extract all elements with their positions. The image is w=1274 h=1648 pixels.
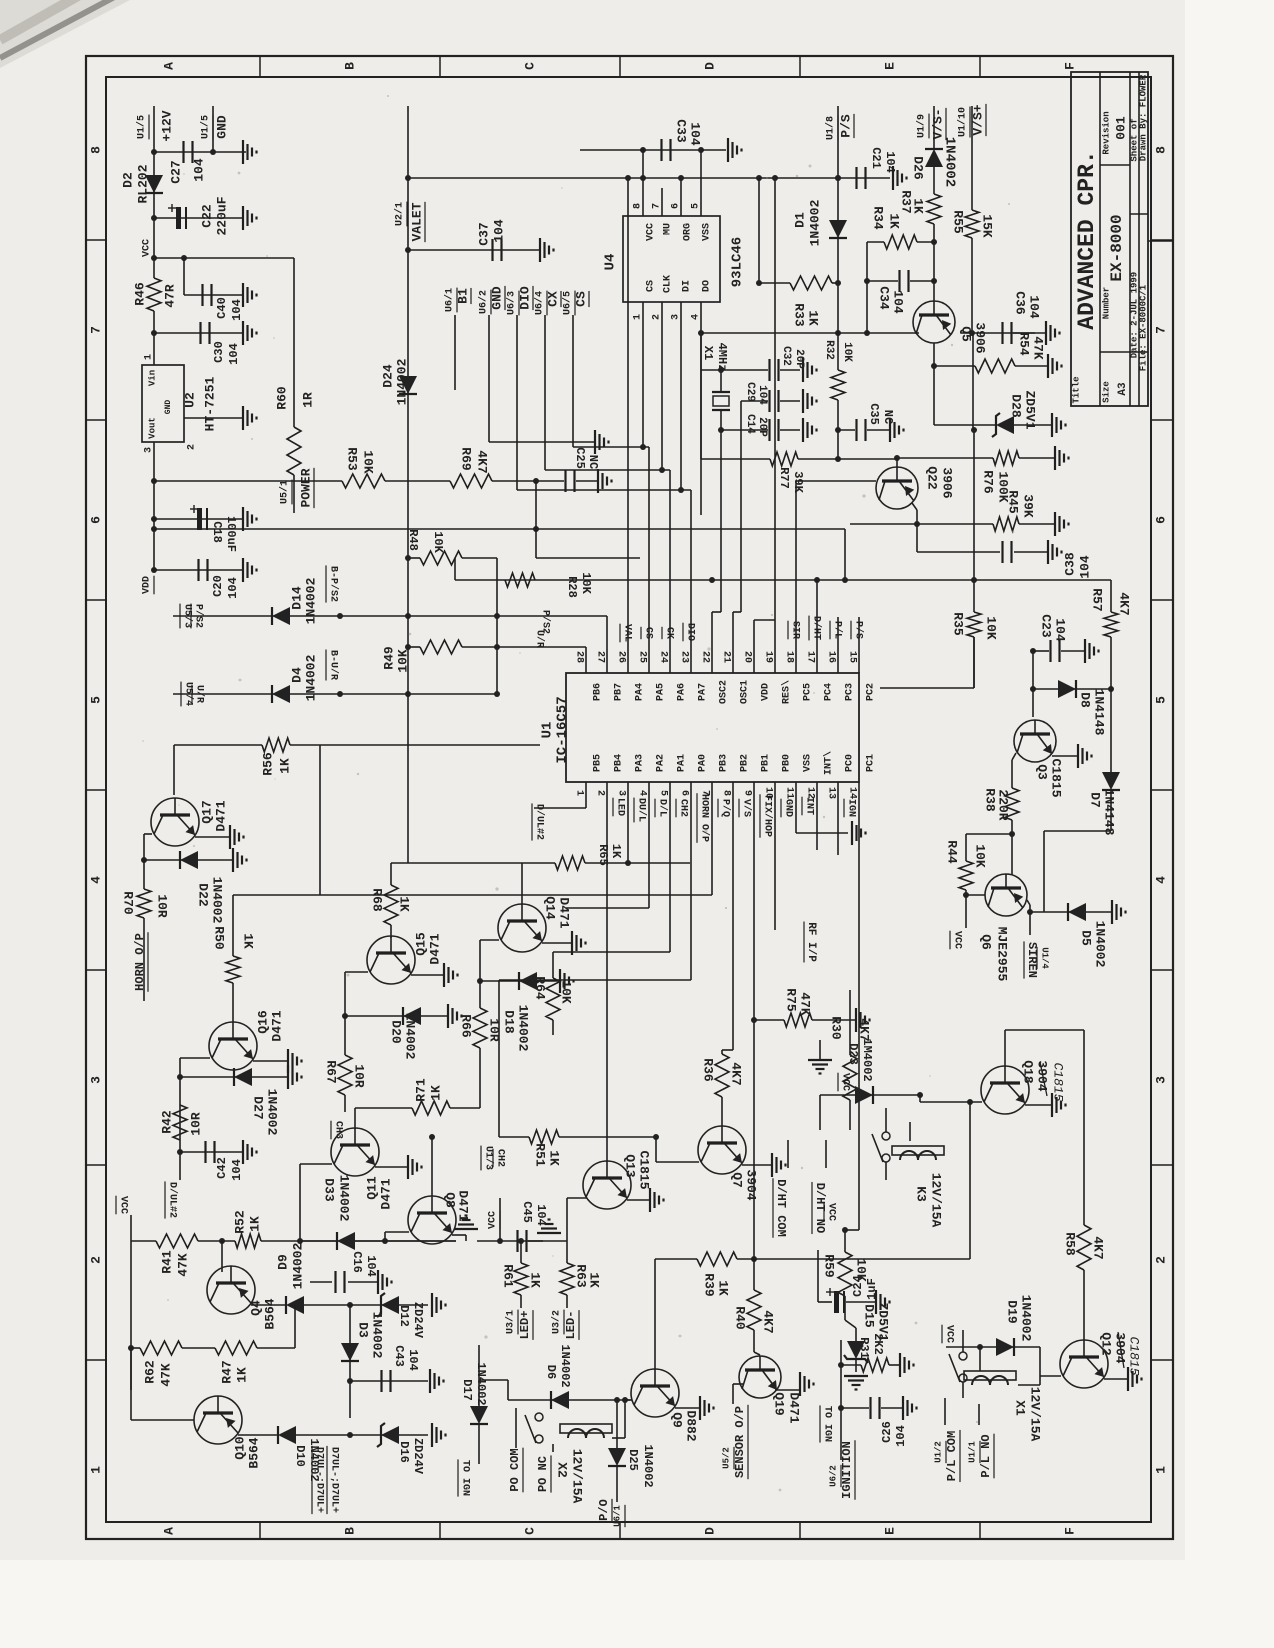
- svg-text:C34: C34: [877, 286, 892, 310]
- svg-text:VCC: VCC: [646, 223, 657, 241]
- svg-text:PB5: PB5: [593, 754, 604, 772]
- svg-text:U1/1: U1/1: [967, 1441, 977, 1463]
- svg-text:D27: D27: [251, 1096, 266, 1119]
- svg-text:VCC: VCC: [488, 1211, 499, 1229]
- diode D8 1N4148: [1058, 680, 1076, 698]
- grid ticks bottom: [259, 1522, 261, 1539]
- wire R57 column: [1110, 580, 1112, 612]
- U1 pin8 wire: [732, 782, 734, 1050]
- svg-text:4MHz: 4MHz: [715, 343, 729, 372]
- svg-text:5: 5: [691, 203, 702, 209]
- ground sym U1 gnd: [851, 821, 853, 845]
- wire Q18 emitter ground: [1025, 1104, 1052, 1106]
- svg-text:Q6: Q6: [979, 934, 994, 950]
- capacitor C36 104: [1001, 322, 1003, 344]
- wire C30 branch: [154, 332, 243, 334]
- svg-text:RF I/P: RF I/P: [805, 922, 817, 962]
- resistor R77 39K row 459: [701, 458, 770, 460]
- svg-text:D23: D23: [846, 1043, 860, 1065]
- svg-text:R61: R61: [501, 1264, 516, 1288]
- svg-text:12V/15A: 12V/15A: [929, 1173, 944, 1228]
- svg-text:SIR: SIR: [789, 621, 800, 639]
- svg-text:1: 1: [88, 1466, 103, 1474]
- svg-text:PA4: PA4: [635, 683, 646, 701]
- node V/S+ 333: [969, 330, 975, 336]
- svg-text:D16: D16: [397, 1441, 411, 1463]
- diode D4 1N4002: [272, 685, 290, 703]
- wire Q14 base: [480, 939, 499, 941]
- svg-text:C24: C24: [851, 1275, 865, 1297]
- svg-text:U6/5: U6/5: [562, 291, 574, 315]
- svg-text:1K: 1K: [428, 1085, 443, 1101]
- svg-text:R42: R42: [159, 1110, 174, 1134]
- wire C20 branch: [154, 569, 243, 571]
- svg-text:F: F: [1062, 1527, 1077, 1535]
- svg-text:104: 104: [534, 1204, 548, 1226]
- svg-text:1K: 1K: [887, 213, 902, 229]
- svg-text:D10: D10: [293, 1445, 307, 1467]
- svg-text:1N4002: 1N4002: [1019, 1295, 1034, 1342]
- wire Q8 emitter to VCC row: [452, 1234, 466, 1236]
- svg-text:1N4148: 1N4148: [1092, 689, 1107, 736]
- svg-text:D471: D471: [269, 1010, 284, 1041]
- svg-text:R38: R38: [983, 788, 998, 812]
- resistor R56 1K: [262, 738, 290, 752]
- svg-text:U1/2: U1/2: [933, 1441, 943, 1463]
- svg-text:PA7: PA7: [698, 683, 709, 701]
- wire R65 row 863: [408, 862, 555, 864]
- svg-text:22: 22: [699, 651, 710, 663]
- svg-text:C: C: [522, 62, 537, 70]
- wire col497: [496, 558, 498, 694]
- ground sym at C30: [242, 321, 244, 345]
- wire R60 branch: [154, 257, 294, 259]
- svg-text:28: 28: [573, 651, 584, 663]
- svg-text:D471: D471: [213, 800, 228, 831]
- svg-text:D3: D3: [356, 1322, 371, 1338]
- diode D25 1N4002: [608, 1448, 626, 1466]
- node C20: [151, 567, 157, 573]
- svg-text:6: 6: [1153, 516, 1168, 524]
- svg-text:Q9: Q9: [670, 1412, 685, 1428]
- node Q9 base: [622, 1397, 628, 1403]
- svg-text:220uF: 220uF: [214, 196, 229, 235]
- U1 pin4 wire: [648, 782, 650, 908]
- svg-text:10K: 10K: [361, 450, 376, 474]
- node R62 row: [128, 1345, 134, 1351]
- svg-text:Q4: Q4: [248, 1300, 263, 1316]
- node Q22 collector: [894, 455, 900, 461]
- wire R71 row: [355, 1107, 412, 1109]
- svg-text:7: 7: [1153, 326, 1168, 334]
- svg-text:HORN O/P: HORN O/P: [698, 794, 710, 842]
- svg-text:A3: A3: [1117, 382, 1129, 396]
- resistor R32 10K on column 838: [837, 283, 839, 370]
- wire row529 right corner: [844, 529, 846, 580]
- wire VCC to Q10 base column: [130, 1241, 132, 1390]
- diode D33 1N4002 on VCC rail: [337, 1232, 355, 1250]
- svg-text:C45: C45: [520, 1201, 534, 1223]
- svg-text:R51: R51: [533, 1143, 548, 1167]
- svg-text:C18: C18: [210, 521, 224, 543]
- transistor Q12 3904: [1060, 1340, 1108, 1388]
- svg-text:OSC1: OSC1: [740, 680, 751, 704]
- svg-text:R68: R68: [370, 888, 385, 912]
- svg-text:5: 5: [657, 790, 668, 796]
- wire col536 to row558: [535, 481, 537, 558]
- wire V/S- column through R37: [933, 106, 935, 150]
- node D16 row: [347, 1432, 353, 1438]
- wire CX row: [545, 469, 670, 471]
- svg-text:5: 5: [88, 696, 103, 704]
- wire X2 to D6 row: [612, 1437, 625, 1439]
- svg-text:TO IGN: TO IGN: [821, 1406, 832, 1442]
- wire Q7 emitter ground: [742, 1164, 772, 1166]
- svg-text:1N4002: 1N4002: [403, 1013, 418, 1060]
- diode D27 1N4002: [234, 1068, 252, 1086]
- resistor R50 1K: [226, 956, 240, 983]
- wire C24 column: [817, 1250, 819, 1302]
- resistor R51 1K: [529, 1130, 559, 1144]
- wire Q18 base: [920, 1101, 982, 1103]
- wire Q17 emitter to ground: [195, 836, 230, 838]
- svg-text:1N4002: 1N4002: [290, 1242, 305, 1289]
- wire Q11 base: [300, 1163, 332, 1165]
- svg-text:C25: C25: [573, 447, 587, 469]
- ground sym C35 row: [889, 418, 891, 442]
- terminal VCC mid: [499, 1198, 501, 1241]
- svg-text:R41: R41: [159, 1250, 174, 1274]
- title block frame: [1071, 72, 1148, 406]
- svg-text:R77: R77: [777, 467, 791, 489]
- ground sym C21: [892, 166, 894, 190]
- ground sym D12: [431, 1293, 433, 1317]
- svg-text:PA2: PA2: [656, 754, 667, 772]
- svg-text:1N4002: 1N4002: [303, 654, 318, 701]
- diode D5 1N4002: [1068, 903, 1086, 921]
- wire C38 row: [917, 551, 1000, 553]
- node VALET-178: [405, 175, 411, 181]
- svg-text:PC5: PC5: [803, 683, 814, 701]
- svg-text:U6/1: U6/1: [612, 1505, 622, 1527]
- wire R50 column: [232, 895, 234, 956]
- switch K3 contacts: [882, 1154, 890, 1162]
- U1 pin10 wire: [774, 782, 776, 930]
- svg-text:D25: D25: [626, 1449, 640, 1471]
- ground sym at C18: [242, 507, 244, 531]
- svg-text:U1/9: U1/9: [916, 114, 928, 138]
- svg-text:D17: D17: [460, 1379, 474, 1401]
- svg-text:47K: 47K: [1031, 336, 1046, 360]
- svg-text:U1/10: U1/10: [957, 107, 969, 137]
- diode D23 1N4002: [855, 1086, 873, 1104]
- transistor Q13 C1815: [583, 1161, 631, 1209]
- svg-text:39K: 39K: [1021, 494, 1036, 518]
- svg-text:4: 4: [691, 314, 702, 320]
- svg-text:R64: R64: [533, 976, 548, 1000]
- ground sym U2 pin2: [242, 406, 244, 430]
- svg-text:D6: D6: [544, 1365, 558, 1379]
- svg-text:U1/8: U1/8: [825, 116, 837, 140]
- svg-text:10R: 10R: [352, 1064, 367, 1088]
- wire Q22 emitter: [912, 503, 917, 510]
- U1 pin28 wire: [585, 647, 587, 673]
- svg-text:12V/15A: 12V/15A: [570, 1449, 585, 1504]
- transistor Q15 D471: [367, 936, 415, 984]
- svg-text:B: B: [342, 62, 357, 70]
- svg-text:PC3: PC3: [845, 683, 856, 701]
- node SIREN: [1027, 909, 1033, 915]
- paper speckle noise: [449, 302, 452, 305]
- svg-text:R35: R35: [951, 612, 966, 636]
- svg-text:U5/2: U5/2: [721, 1447, 731, 1469]
- svg-text:R47: R47: [219, 1360, 234, 1383]
- U1 pin3 wire LED: [627, 782, 629, 863]
- scan artifact corner smudge: [0, 0, 130, 68]
- wire R33 row: [759, 282, 790, 284]
- wire Q15 emitter ground: [411, 974, 444, 976]
- svg-text:D/L: D/L: [656, 799, 668, 817]
- U1 pin7 wire HORN: [711, 782, 713, 895]
- wire VALET vertical bus: [407, 106, 409, 863]
- svg-text:U1/5: U1/5: [200, 115, 212, 139]
- wire bus 178 corner down: [758, 178, 760, 283]
- svg-text:D471: D471: [557, 897, 572, 928]
- diode D26 1N4002: [925, 149, 943, 167]
- svg-text:1K: 1K: [716, 1280, 731, 1296]
- ground sym Q17: [229, 825, 231, 849]
- svg-text:IGNITION: IGNITION: [840, 1441, 854, 1499]
- svg-text:CS: CS: [573, 291, 588, 307]
- U4 pin3: [680, 302, 682, 490]
- svg-text:U3/2: U3/2: [551, 1310, 563, 1334]
- diode D18 1N4002: [519, 972, 537, 990]
- svg-text:C20: C20: [211, 575, 225, 597]
- svg-text:3906: 3906: [973, 322, 988, 353]
- resistor R52 1K: [235, 1234, 261, 1248]
- svg-text:D24: D24: [380, 364, 395, 388]
- resistor R65 1K: [555, 856, 585, 870]
- wire D16 row: [350, 1434, 428, 1436]
- wire D22 row: [144, 859, 233, 861]
- transistor Q19 D471: [739, 1356, 781, 1398]
- svg-text:C36: C36: [1013, 291, 1028, 315]
- svg-text:PA3: PA3: [635, 754, 646, 772]
- svg-text:C1815: C1815: [1049, 758, 1064, 797]
- transistor Q16 D471: [209, 1022, 257, 1070]
- capacitor C26 104: [841, 1407, 869, 1409]
- svg-text:1N4002: 1N4002: [1093, 921, 1108, 968]
- svg-text:R55: R55: [951, 210, 966, 234]
- svg-text:CH2: CH2: [494, 1149, 505, 1167]
- svg-text:Q11: Q11: [364, 1176, 379, 1200]
- svg-text:1K: 1K: [587, 1272, 602, 1288]
- wire D1 column: [837, 178, 839, 283]
- svg-text:104: 104: [1053, 618, 1068, 642]
- wire Q14 emitter ground: [542, 942, 572, 944]
- svg-text:R63: R63: [574, 1264, 589, 1288]
- svg-text:R59: R59: [822, 1254, 837, 1278]
- svg-text:104: 104: [226, 577, 240, 599]
- capacitor C30 104: [199, 322, 201, 344]
- svg-text:20P: 20P: [756, 417, 768, 437]
- U4 pin8: [642, 150, 644, 216]
- wire R35 bottom corner: [973, 637, 975, 688]
- svg-text:9: 9: [741, 790, 752, 796]
- U1 pin23 wire DIO: [690, 490, 692, 673]
- relay X1 coil: [972, 1376, 990, 1385]
- svg-text:CH2: CH2: [677, 799, 688, 817]
- svg-text:14: 14: [846, 787, 857, 799]
- svg-text:8: 8: [720, 790, 731, 796]
- svg-text:1N4002: 1N4002: [474, 1362, 488, 1405]
- terminal VCC Q6: [965, 895, 967, 928]
- wire Q6 emitter row: [966, 894, 985, 896]
- node C30: [151, 330, 157, 336]
- U1 pin21 wire OSC1: [732, 612, 734, 673]
- wire D23 row: [820, 1094, 920, 1096]
- svg-text:3904: 3904: [1035, 1060, 1050, 1091]
- resistor R53 10K: [151, 478, 157, 484]
- wire Q16 base chain: [180, 1057, 210, 1059]
- svg-text:10R: 10R: [487, 1018, 502, 1042]
- svg-text:DU/L: DU/L: [635, 798, 647, 822]
- svg-text:Q19: Q19: [772, 1392, 787, 1416]
- wire R68 column: [391, 862, 408, 864]
- zener D28 ZD5V1: [934, 424, 996, 426]
- U1 pin27 wire: [606, 616, 608, 673]
- svg-text:10K: 10K: [395, 649, 410, 673]
- svg-text:Vin: Vin: [147, 370, 157, 386]
- svg-text:GND: GND: [782, 799, 793, 817]
- svg-text:MU: MU: [663, 223, 674, 235]
- svg-text:D18: D18: [502, 1010, 517, 1034]
- wire P/S stub: [837, 106, 839, 178]
- svg-text:U5/1: U5/1: [279, 480, 291, 504]
- svg-text:F: F: [1062, 62, 1077, 70]
- svg-text:15: 15: [846, 651, 857, 663]
- svg-text:U6/2: U6/2: [828, 1465, 838, 1487]
- node D28b: [971, 427, 977, 433]
- capacitor C23 104: [1033, 650, 1049, 652]
- capacitor C16 104: [310, 1281, 332, 1283]
- svg-text:D20: D20: [389, 1020, 404, 1044]
- svg-text:3906: 3906: [940, 467, 955, 498]
- U1 pin14 wire IGN: [858, 782, 860, 1230]
- capacitor C29 104: [768, 390, 770, 412]
- wire R44 top row: [966, 833, 1012, 835]
- svg-text:R65: R65: [596, 844, 610, 866]
- transistor Q11 D471: [354, 1108, 356, 1129]
- svg-text:104: 104: [191, 158, 206, 182]
- crystal X1 4MHz: [720, 370, 722, 392]
- svg-text:PB6: PB6: [593, 683, 604, 701]
- svg-text:VCC: VCC: [943, 1325, 954, 1343]
- wire Q11 emitter ground: [375, 1166, 408, 1168]
- svg-text:DIO: DIO: [517, 286, 532, 310]
- ground sym Q8 emitter: [454, 1228, 478, 1230]
- svg-text:8: 8: [88, 146, 103, 154]
- svg-text:ZD5V1: ZD5V1: [1023, 390, 1038, 429]
- svg-text:18: 18: [783, 651, 794, 663]
- capacitor C22 220uF polarized: [176, 207, 181, 229]
- svg-text:CK: CK: [663, 627, 674, 639]
- resistor R55 15K: [965, 210, 979, 238]
- wire Q3 collector column: [1032, 651, 1034, 717]
- svg-text:OSC2: OSC2: [719, 680, 730, 704]
- wire R39 row: [655, 1258, 697, 1260]
- U1 pin6 wire CH2: [690, 782, 692, 980]
- svg-text:P/S2: P/S2: [192, 604, 204, 628]
- svg-text:R54: R54: [1017, 332, 1032, 356]
- svg-text:D9: D9: [275, 1254, 290, 1270]
- wire U/R row: [173, 693, 497, 695]
- svg-text:24: 24: [657, 651, 668, 663]
- U1 pin11 wire GND: [795, 782, 797, 833]
- svg-text:R57: R57: [1090, 588, 1105, 611]
- svg-text:11: 11: [783, 787, 794, 799]
- wire D9 row to D12: [350, 1304, 428, 1306]
- svg-text:1N4002: 1N4002: [265, 1089, 280, 1136]
- wire Q3 base R38: [1012, 753, 1016, 760]
- wire VCC rail bottom: [130, 1215, 132, 1241]
- transistor Q18 3904: [981, 1066, 1029, 1114]
- wire Q19 emitter ground: [775, 1389, 800, 1391]
- U1 pin16 wire: [837, 617, 839, 673]
- svg-text:Q15: Q15: [413, 932, 428, 956]
- svg-text:C30: C30: [212, 341, 226, 363]
- wire R47 to Q4 junction: [294, 1305, 296, 1348]
- svg-text:4: 4: [88, 876, 103, 884]
- wire bus row y178: [408, 177, 890, 179]
- wire C22 branch: [154, 217, 243, 219]
- zener D12 ZD24V: [381, 1296, 399, 1314]
- transistor Q4 B564 pnp: [207, 1266, 255, 1314]
- zener D15 ZD5V1: [845, 1320, 856, 1328]
- svg-text:D/UL#2: D/UL#2: [533, 804, 545, 840]
- svg-text:6: 6: [88, 516, 103, 524]
- resistor R47 1K: [215, 1341, 257, 1355]
- wire long row 580: [455, 579, 1111, 581]
- svg-text:1K: 1K: [397, 896, 412, 912]
- svg-text:7: 7: [652, 203, 663, 209]
- U4 pin4: [700, 302, 702, 515]
- wire D25 column: [616, 1400, 618, 1448]
- capacitor C20 104: [197, 559, 199, 581]
- resistor R33 1K: [790, 276, 832, 290]
- svg-text:R56: R56: [260, 752, 275, 776]
- wire OSC row 430 C14: [721, 429, 768, 431]
- wire right bus column 974: [972, 333, 974, 430]
- ground sym D27: [287, 1065, 289, 1089]
- ic U1 IC-16C57 box: [566, 673, 859, 782]
- resistor R45 39K: [993, 517, 1019, 531]
- wire Q13 collector: [606, 1137, 608, 1161]
- svg-text:PC2: PC2: [866, 683, 877, 701]
- svg-text:U/R: U/R: [193, 685, 205, 703]
- svg-text:21: 21: [720, 651, 731, 663]
- svg-text:PB4: PB4: [614, 754, 625, 772]
- capacitor C21 104: [855, 167, 857, 189]
- wire C43 row: [350, 1380, 428, 1382]
- wire X1 right: [1018, 1384, 1040, 1386]
- wire Q18 collector to R58: [1004, 1030, 1006, 1066]
- capacitor C37 104: [491, 239, 493, 261]
- wire Q10 emitter row: [238, 1434, 278, 1436]
- capacitor C33 104: [660, 139, 662, 161]
- svg-text:PC4: PC4: [824, 683, 835, 701]
- svg-text:PB0: PB0: [782, 754, 793, 772]
